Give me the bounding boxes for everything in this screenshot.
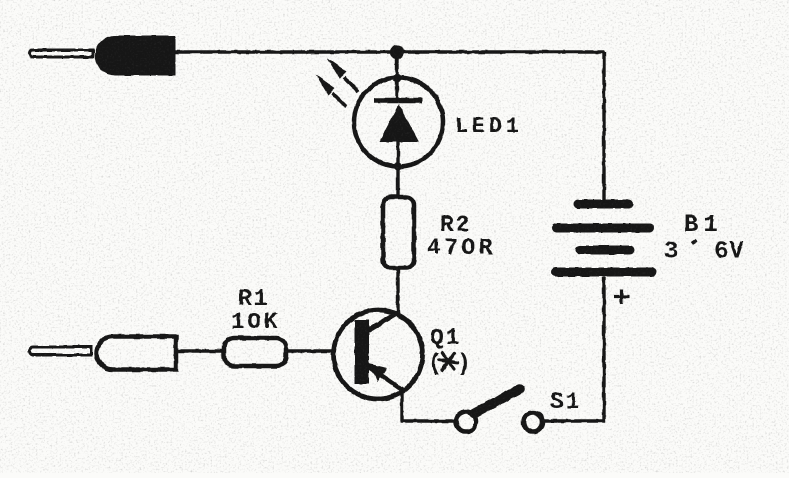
wire battery to top rail	[602, 52, 605, 200]
probe P1 (top test probe, filled)	[30, 36, 176, 75]
label (*)	[428, 351, 471, 377]
wire junction to LED	[395, 52, 398, 80]
wire switch to battery	[542, 277, 604, 421]
light emission arrow 2	[316, 75, 347, 108]
LED LED1	[354, 78, 443, 198]
transistor Q1	[334, 310, 423, 399]
switch S1	[456, 389, 543, 432]
wire top rail	[175, 50, 604, 53]
wire R1 to base	[286, 349, 334, 352]
light emission arrow 1	[327, 58, 358, 92]
node A (top junction)	[390, 45, 404, 59]
wire emitter to switch	[402, 394, 456, 421]
resistor R1	[224, 338, 286, 366]
battery B1	[556, 204, 652, 272]
label + (battery polarity)	[614, 289, 629, 304]
node at LED circle top	[393, 74, 402, 83]
resistor R2	[383, 197, 414, 268]
wire R2 to Q1 collector	[396, 268, 399, 314]
probe P2 (bottom test probe, outline)	[29, 337, 176, 370]
tick between 3 and 6	[692, 240, 697, 243]
wire probe to R1	[176, 349, 224, 352]
